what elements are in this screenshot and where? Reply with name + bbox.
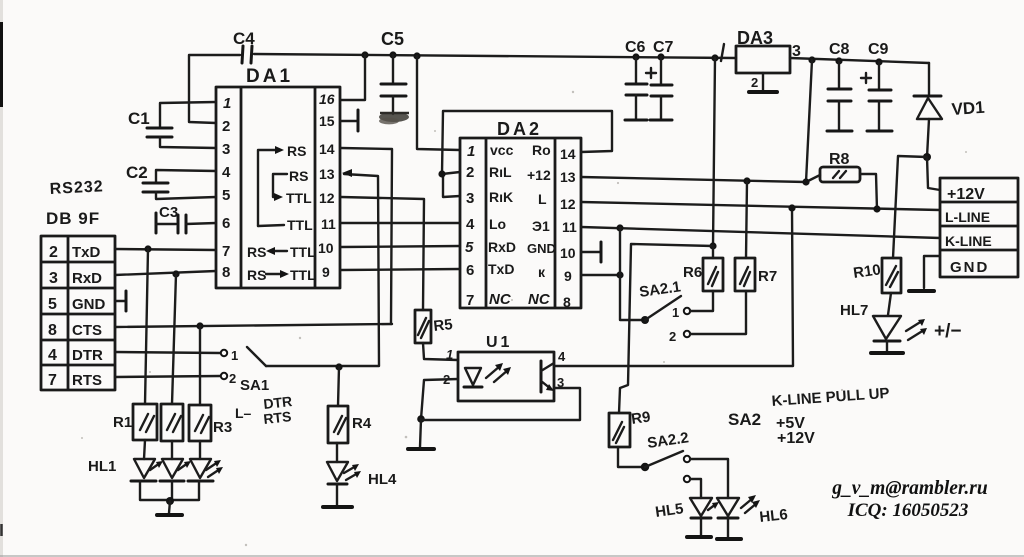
svg-text:к: к [538,264,546,280]
svg-text:GND: GND [527,241,556,256]
resistor R1 [113,249,157,440]
svg-text:1: 1 [672,305,679,320]
resistor R5 [415,310,454,343]
wire rail to DA1 pin16 [341,55,365,100]
wire VD1 node to R10 [893,156,927,258]
resistor R2 [161,274,183,441]
wire SA2.2 contact2 to HL5 [690,479,701,498]
wire VD1 node to +12V terminal [927,157,940,190]
svg-text:11: 11 [321,216,336,232]
pin labels DA2 right column [527,142,556,308]
svg-text:DA2: DA2 [497,119,542,139]
svg-text:RxD: RxD [488,239,516,255]
wire DA2 pin11 K net [581,227,940,238]
svg-text:RxD: RxD [72,270,102,287]
svg-text:1: 1 [467,143,475,160]
ground HL1-3 [157,501,182,515]
wire SA2.2 contact1 to HL6 [690,459,728,498]
svg-text:HL7: HL7 [840,302,868,319]
svg-text:CTS: CTS [72,322,102,339]
LED HL5 [654,498,719,536]
svg-text:K-LINE: K-LINE [945,233,992,249]
wire rail down to +12 net [806,60,812,182]
wire DA2 pin9 to K net riser [581,228,643,320]
capacitor C2 [126,163,216,199]
svg-text:R5: R5 [433,316,454,335]
node U1 riser on L net [788,204,795,211]
svg-text:TTL: TTL [290,267,316,283]
svg-text:9: 9 [564,268,572,284]
svg-text:14: 14 [560,146,576,162]
node R4 tap on SA1 wire [335,363,342,370]
switch SA2.1 [638,278,690,344]
node DA2 vcc tap [413,52,420,59]
scan artifact left edge [0,0,3,557]
svg-text:HL1: HL1 [88,458,116,475]
svg-text:11: 11 [562,219,577,235]
svg-text:+12V: +12V [777,430,815,447]
resistor R7 [690,181,777,334]
svg-text:5: 5 [48,296,57,313]
capacitor C7 polarized [646,39,674,120]
svg-text:L-LINE: L-LINE [945,209,990,225]
svg-text:4: 4 [222,164,231,181]
svg-text:RS: RS [247,244,266,260]
svg-text:TTL: TTL [290,244,316,260]
wire +5V rail left section [254,54,736,58]
switch SA1 [221,347,293,427]
wire DA1 pin12 to R5 [341,197,424,310]
svg-text:7: 7 [466,292,474,309]
svg-text:Э1: Э1 [532,218,550,234]
svg-text:4: 4 [466,216,475,233]
pin labels DA2 left column [488,142,516,308]
ground smudge under C5 [379,112,409,124]
node R6 pull-up tap on +5V rail [711,54,718,61]
resistor R3 [189,326,232,441]
wire U1 pin3 return to ground node [421,388,580,420]
wire +12V rail right section [790,58,929,63]
svg-text:NС: NС [489,291,512,308]
capacitor C9 polarized [861,41,892,131]
wire RxD to DA1 pin8 [115,271,216,275]
wire DTR to SA1 contact1 [115,352,220,353]
ground HL5 [687,535,711,539]
svg-text:HL4: HL4 [368,471,397,488]
svg-text:+/−: +/− [934,321,961,342]
capacitor C3 [156,204,216,233]
svg-text:TxD: TxD [72,244,101,261]
connector DB9F table [41,236,115,390]
svg-text:1: 1 [446,347,453,362]
svg-text:NC: NC [528,291,551,308]
svg-text:RTS: RTS [72,372,102,389]
svg-text:15: 15 [319,113,335,129]
svg-text:R1: R1 [113,414,132,431]
wire DA1 pin11 to DA2 pin4 [341,222,460,224]
optocoupler U1 [443,334,566,401]
wire C4 left to DA1 pin2 [189,55,240,123]
wire TxD to DA1 pin7 [115,249,216,250]
svg-text:2: 2 [466,164,474,181]
LED inside U1 [464,368,482,387]
ground HL4 [323,484,352,507]
capacitor C6 [625,39,647,120]
node TxD/R1 junction [144,245,151,252]
svg-text:1: 1 [223,95,231,112]
wire DA1 pin9 to DA2 pin6 [341,269,460,270]
svg-text:VD1: VD1 [951,98,985,119]
svg-text:Lo: Lo [489,216,506,232]
wire DA2 pin12 L net [581,202,940,210]
svg-text:13: 13 [560,169,576,185]
DA1 internal row pin10 RS from TTL [247,244,316,260]
svg-text:C7: C7 [653,39,674,56]
wire HL1-3 cathode bus [140,481,199,502]
paper specks [81,91,967,546]
capacitor C1 [128,102,216,148]
LED HL1 [88,440,163,481]
svg-text:2: 2 [49,244,58,261]
resistor R10 [852,258,901,293]
DA1 internal map TTL11 to RS14 [258,143,313,233]
DA1 internal map RS13 to TTL12 [273,168,312,206]
resistor R9 [609,408,652,447]
switch SA2.2 [641,429,690,482]
svg-text:3: 3 [222,141,230,158]
svg-text:2: 2 [669,329,676,344]
svg-text:DA1: DA1 [246,66,293,87]
svg-text:C2: C2 [126,163,148,182]
svg-text:R8: R8 [829,151,850,168]
svg-text:DB 9F: DB 9F [46,209,100,228]
node LED bus junction [166,497,174,505]
svg-text:R4: R4 [352,415,372,432]
ground DA2 pin10 terminator [581,242,601,262]
svg-text:R10: R10 [852,261,882,282]
wire R9 to SA2.2 common [618,447,642,467]
svg-text:6: 6 [222,215,230,232]
node R7 tap [743,177,750,184]
svg-text:7: 7 [222,243,230,260]
wire R6 node to R9 [619,244,713,413]
svg-text:+12: +12 [527,167,551,183]
arrows U1 emission [486,363,511,382]
ground DA1 pin15 terminator [341,110,358,131]
svg-text:SA2.1: SA2.1 [638,278,682,301]
svg-text:14: 14 [319,141,335,157]
svg-text:RTS: RTS [263,408,293,427]
pin numbers DA2 right 14-8 [560,146,577,310]
svg-text:SA1: SA1 [240,377,269,394]
svg-text:C6: C6 [625,39,646,56]
svg-text:6: 6 [466,262,474,279]
svg-text:8: 8 [48,322,57,339]
svg-text:12: 12 [319,190,335,206]
svg-text:HL5: HL5 [654,500,684,521]
op-amp U1 label area : IC DA1 [216,66,340,288]
ground GND row terminator [115,291,126,311]
svg-text:10: 10 [318,240,334,256]
wire CTS to DA1 pin14 riser [115,324,392,327]
svg-text:5: 5 [222,187,230,204]
regulator DA3 [721,28,801,73]
wire DA2 pin13 +12 net [581,175,820,182]
svg-text:16: 16 [319,91,335,107]
wire U1 pin2 to ground [408,379,458,449]
scan artifact bottom edge [0,555,1024,557]
svg-text:GND: GND [950,259,989,276]
arrows HL7 emission [906,319,927,340]
diode VD1 [914,63,985,157]
svg-text:2: 2 [229,371,236,386]
svg-text:RS: RS [247,267,266,283]
svg-text:5: 5 [465,239,474,256]
svg-text:8: 8 [563,294,571,310]
svg-text:R9: R9 [630,408,651,428]
pin numbers DA1 left 1-8 [222,95,231,281]
svg-text:8: 8 [222,264,230,281]
wire rail to DA2 pin1 vcc [417,56,460,150]
node RxD/R2 junction [172,270,179,277]
svg-text:DTR: DTR [72,347,103,364]
svg-text:vcc: vcc [490,142,514,158]
svg-text:U1: U1 [486,334,512,351]
transistor inside U1 [541,361,554,392]
svg-text:C8: C8 [829,41,850,58]
svg-text:10: 10 [560,245,576,261]
wire R5 to U1 pin1 [423,343,458,360]
wire RTS to SA1 contact2 [115,376,220,377]
LED HL7 [840,293,901,352]
wire U1 pin4 to L net riser [554,208,793,366]
svg-text:R7: R7 [758,268,777,285]
svg-text:9: 9 [322,264,330,280]
terminal block +12V L-Line K-Line GND [940,178,1018,277]
ground DA3 pin2 [749,73,777,92]
svg-text:SA2: SA2 [728,410,761,429]
node CTS/R3 junction [196,322,203,329]
ground HL6 [717,537,741,541]
capacitor C5 [381,29,406,114]
pin numbers DA2 left 1-7 [465,143,475,309]
svg-text:2: 2 [222,118,230,135]
DA1 internal row pin9 RS to TTL [247,267,316,283]
svg-text:Ro: Ro [532,142,551,158]
wire DA1 pin14 down to CTS [341,148,392,324]
resistor R8 [820,151,860,182]
resistor R6 [683,58,723,311]
svg-text:3: 3 [466,190,474,207]
LED HL3 [188,441,223,481]
svg-text:L–: L– [235,405,252,421]
svg-text:4: 4 [48,347,57,364]
node C4/pin16 junction [361,51,368,58]
svg-text:7: 7 [48,372,57,389]
svg-text:ICQ: 16050523: ICQ: 16050523 [847,500,969,521]
svg-text:3: 3 [49,270,58,287]
svg-text:4: 4 [558,349,566,364]
svg-text:RS232: RS232 [49,178,104,198]
svg-text:L: L [538,191,547,207]
svg-text:GND: GND [72,296,106,313]
svg-text:12: 12 [560,196,576,212]
svg-text:HL6: HL6 [759,506,789,526]
svg-text:TTL: TTL [287,217,313,233]
ground GND terminal [909,256,940,291]
svg-text:2: 2 [751,75,758,90]
IC DA2 [460,119,581,308]
pin numbers DA1 right 16-9 [318,91,336,280]
node R8 on L net [873,205,880,212]
svg-text:RS: RS [289,168,308,184]
svg-text:R6: R6 [683,264,702,281]
capacitor C4 [233,29,255,63]
svg-text:SA2.2: SA2.2 [646,429,690,452]
svg-text:TTL: TTL [286,190,312,206]
wire R8 to L net [860,174,877,210]
label SA2 function [728,385,890,447]
node K net junction [616,224,623,231]
svg-text:RıK: RıK [489,189,513,205]
wire SA1 common to DA1 pin13 [266,174,379,366]
svg-text:C5: C5 [381,29,404,49]
svg-text:R3: R3 [213,419,232,436]
svg-text:+12V: +12V [947,186,985,203]
svg-text:g_v_m@rambler.ru: g_v_m@rambler.ru [831,478,988,499]
resistor R4 [328,367,372,443]
svg-text:1: 1 [231,348,238,363]
svg-text:RS: RS [287,143,306,159]
wire DA2 loop pin2 pin3 to pin14 [438,111,612,197]
node VD1 cathode junction [923,153,931,161]
svg-text:C9: C9 [868,41,889,58]
LED HL2 [160,441,191,481]
svg-text:C3: C3 [159,204,178,221]
LED HL4 [327,443,397,488]
svg-text:TxD: TxD [488,261,514,277]
capacitor C8 [827,41,852,131]
svg-text:C1: C1 [128,109,150,128]
svg-text:K-LINE PULL UP: K-LINE PULL UP [771,385,890,410]
node DA3 out tap [802,178,809,185]
ground HL7 [871,351,903,355]
svg-text:RıL: RıL [489,164,512,180]
node DA3 out to pin13 tap [808,56,815,63]
svg-text:13: 13 [319,166,335,182]
wire DA1 pin10 to DA2 pin5 [341,246,460,247]
LED HL6 [717,495,789,538]
